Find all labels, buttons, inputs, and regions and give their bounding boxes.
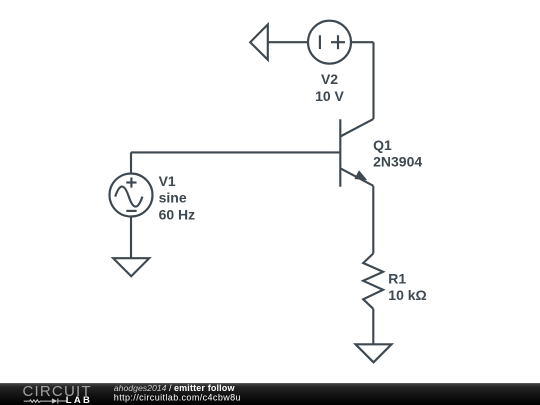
- wire V1 top stub: [130, 152, 132, 173]
- V2 plus sign: [331, 41, 345, 43]
- V1 minus sign: [126, 210, 136, 212]
- wire R1 to ground: [372, 309, 374, 345]
- svg-text:10 kΩ: 10 kΩ: [388, 287, 426, 303]
- wire ground flag to V2: [268, 41, 308, 43]
- transistor Q1 emitter lead: [340, 168, 373, 186]
- ground below R1: [356, 344, 392, 362]
- base wire from V1 to Q1: [131, 151, 340, 153]
- V2 minus bar: [319, 35, 321, 49]
- svg-text:LAB: LAB: [66, 395, 92, 405]
- footer bar: [0, 383, 540, 405]
- transistor Q1 base bar: [339, 119, 341, 186]
- svg-text:10 V: 10 V: [315, 88, 344, 104]
- svg-text:V1: V1: [159, 173, 176, 189]
- Q1 emitter arrow: [354, 170, 367, 180]
- voltage source V2 body: [308, 21, 351, 64]
- svg-text:R1: R1: [388, 271, 406, 287]
- logo circuit glyph: resistor + diode: [24, 398, 67, 403]
- voltage source V1 body: [110, 174, 153, 217]
- svg-text:sine: sine: [159, 190, 187, 206]
- svg-text:V2: V2: [321, 71, 338, 87]
- transistor Q1 collector lead: [340, 119, 373, 137]
- wire V2 to corner: [351, 41, 374, 43]
- svg-text:2N3904: 2N3904: [373, 154, 422, 170]
- V1 plus sign: [126, 181, 136, 183]
- wire Q1 emitter down to R1: [372, 186, 374, 254]
- wire corner down to Q1 collector: [372, 42, 374, 119]
- wire V1 bottom stub: [130, 217, 132, 259]
- svg-text:60 Hz: 60 Hz: [159, 206, 196, 222]
- svg-text:Q1: Q1: [373, 137, 392, 153]
- ground flag (left-pointing) at V2 negative: [250, 25, 268, 60]
- ground below V1: [113, 258, 149, 276]
- resistor R1 zigzag: [363, 254, 383, 309]
- V1 sine wave: [115, 187, 142, 207]
- svg-text:ahodges2014 / emitter follow: ahodges2014 / emitter follow: [114, 383, 236, 393]
- svg-text:http://circuitlab.com/c4cbw8u: http://circuitlab.com/c4cbw8u: [114, 393, 241, 403]
